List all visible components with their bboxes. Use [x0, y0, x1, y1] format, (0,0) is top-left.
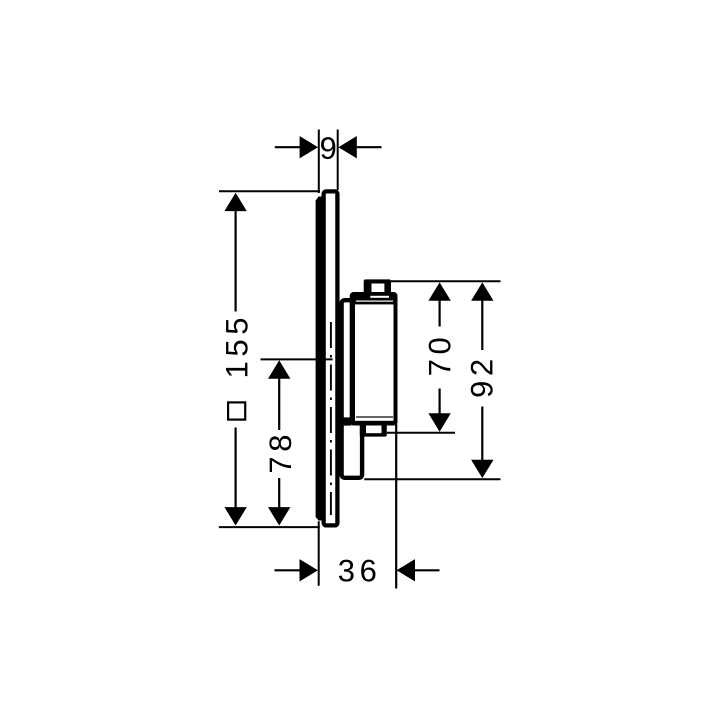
dim 78: line lower segment [278, 478, 280, 509]
dim 92: line upper segment [481, 300, 483, 350]
dim 155: line lower segment [235, 428, 237, 509]
handle body outer [350, 292, 398, 426]
dim 92: line lower segment [481, 407, 483, 461]
dim 92: top arrow [471, 282, 493, 300]
dim 70: bottom arrow [428, 413, 450, 431]
dim 155: bottom arrow [224, 507, 246, 525]
plate front face bar [316, 197, 325, 521]
dim 36: left extension line [318, 521, 320, 586]
dim 9: right arrow [338, 136, 356, 158]
dim 155: square symbol [228, 402, 245, 419]
dim 36: left tail line [275, 569, 301, 571]
dim 155: line upper segment [235, 211, 237, 312]
dim 155: top arrow [224, 193, 246, 211]
dim 70 bottom extension line [387, 432, 455, 434]
dim 78: label [270, 458, 291, 472]
dim 9: left tail line [275, 146, 301, 148]
dim 9: right extension line [337, 130, 339, 191]
dim 70: label [429, 361, 450, 375]
escutcheon plate outline (side profile) [324, 191, 338, 525]
dim 92 bottom extension line [364, 478, 500, 480]
dim 78: bottom arrow [268, 507, 290, 525]
dim 9: left extension line [318, 130, 320, 194]
handle inner bottom line [356, 416, 393, 418]
dim 92: bottom arrow [471, 460, 493, 478]
dim 70: line upper segment [439, 300, 441, 327]
dim 78: top arrow [268, 360, 290, 378]
dim 155: label [226, 363, 247, 376]
valve sleeve body [342, 300, 363, 478]
handle top band white sliver [370, 296, 389, 298]
dim 92: label [471, 382, 493, 396]
bottom select button [360, 424, 387, 437]
dim 70: top arrow [428, 282, 450, 300]
bottom extension line [219, 526, 320, 528]
dim 36: left arrow [300, 559, 318, 581]
handle body inner face [355, 304, 394, 420]
plate top extension line [219, 190, 320, 192]
dim 9: right tail line [357, 146, 382, 148]
mid extension line (78 top) [261, 358, 333, 360]
dim 36: right tail line [415, 569, 440, 571]
dim 36: right arrow [397, 559, 415, 581]
plate center line (dash-dot) [330, 322, 332, 515]
dim 78: line upper segment [278, 378, 280, 431]
top select button [364, 279, 391, 294]
handle top band hairline [356, 301, 393, 302]
dim 9: left arrow [300, 136, 318, 158]
sleeve clip tab [342, 417, 351, 425]
right top extension line [391, 280, 501, 282]
dim 36: right extension line [395, 421, 397, 589]
dim 36: label [339, 560, 354, 582]
dim 70: line lower segment [439, 389, 441, 415]
dim 9: label [321, 137, 335, 159]
